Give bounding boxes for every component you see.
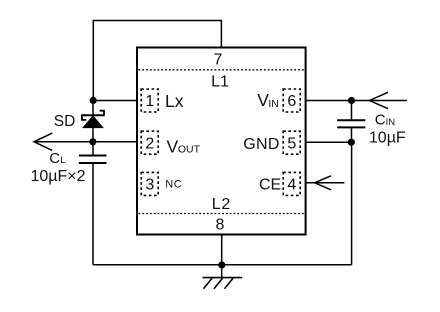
label SD bbox=[54, 113, 76, 130]
svg-text:L2: L2 bbox=[212, 196, 231, 213]
svg-text:NC: NC bbox=[165, 179, 182, 191]
capacitor CL bbox=[79, 156, 107, 164]
junction node VIN/CIN bbox=[348, 97, 355, 104]
junction node ground rail bbox=[218, 261, 225, 268]
label L1 bbox=[211, 74, 229, 91]
wire Lx node to pin 1 bbox=[93, 100, 141, 102]
svg-text:GND: GND bbox=[243, 136, 279, 153]
svg-text:6: 6 bbox=[287, 93, 296, 110]
svg-text:10µF: 10µF bbox=[369, 130, 406, 147]
svg-text:10µF×2: 10µF×2 bbox=[31, 168, 86, 185]
diode SD (Schottky) bbox=[81, 111, 105, 128]
pin 7 label bbox=[214, 52, 223, 69]
wire bottom ground rail bbox=[93, 264, 352, 266]
pin 6 box bbox=[283, 89, 300, 112]
svg-text:V: V bbox=[257, 90, 269, 110]
wire CIN bottom to GND node bbox=[351, 127, 353, 142]
pin 5 number bbox=[287, 135, 296, 152]
wire CE input line from pin 4 bbox=[300, 182, 344, 184]
svg-text:L: L bbox=[60, 155, 65, 166]
wire VIN input line from pin 6 bbox=[300, 100, 407, 102]
pin 2 name VOUT bbox=[167, 136, 201, 156]
pin 2 box bbox=[141, 131, 158, 154]
svg-text:5: 5 bbox=[287, 135, 296, 152]
svg-text:3: 3 bbox=[145, 177, 154, 194]
pin 6 number bbox=[287, 93, 296, 110]
label L2 bbox=[212, 196, 231, 213]
svg-text:C: C bbox=[49, 150, 60, 167]
wire VOUT output line to pin 2 bbox=[34, 141, 141, 143]
svg-text:SD: SD bbox=[54, 113, 76, 130]
svg-text:IN: IN bbox=[386, 117, 396, 128]
wire CIN node down right side to ground rail bbox=[351, 142, 353, 265]
junction node GND/CIN bbox=[348, 139, 355, 146]
pin 2 number bbox=[145, 135, 154, 152]
pin 6 name VIN bbox=[257, 90, 279, 110]
svg-text:4: 4 bbox=[287, 177, 296, 194]
wire VIN node to CIN top bbox=[351, 101, 353, 121]
label CL bbox=[49, 150, 65, 167]
wire diode cathode to Lx node bbox=[92, 101, 94, 116]
arrow CE input (pointing left) bbox=[315, 176, 331, 190]
svg-text:CE: CE bbox=[259, 177, 281, 194]
IC U1 body bbox=[137, 48, 306, 235]
label 10uFx2 bbox=[31, 168, 86, 185]
arrow VIN input (pointing left) bbox=[370, 92, 389, 108]
inductor L1 dotted line bbox=[139, 69, 305, 71]
pin 1 number bbox=[145, 93, 154, 110]
ground symbol bbox=[203, 278, 243, 289]
svg-text:IN: IN bbox=[268, 98, 279, 110]
pin 3 name NC bbox=[165, 179, 182, 191]
pin 5 box bbox=[283, 131, 300, 154]
pin 3 number bbox=[145, 177, 154, 194]
svg-text:2: 2 bbox=[145, 135, 154, 152]
svg-text:V: V bbox=[167, 136, 179, 156]
inductor L2 dotted line bbox=[139, 213, 305, 215]
pin 4 box bbox=[283, 172, 300, 195]
pin 1 box bbox=[141, 89, 158, 112]
label 10uF bbox=[369, 130, 406, 147]
wire CL to ground rail bbox=[92, 163, 94, 265]
svg-text:OUT: OUT bbox=[178, 144, 201, 156]
svg-text:7: 7 bbox=[214, 52, 223, 69]
arrow VOUT output (pointing left) bbox=[34, 133, 52, 150]
pin 1 name Lx bbox=[165, 91, 184, 111]
wire diode anode to VOUT node bbox=[92, 128, 94, 156]
junction node Lx/diode bbox=[90, 97, 97, 104]
svg-text:1: 1 bbox=[145, 93, 154, 110]
wire pin 8 to ground rail bbox=[221, 235, 223, 265]
svg-text:L1: L1 bbox=[211, 74, 229, 91]
junction node VOUT/CL bbox=[89, 138, 96, 145]
pin 4 number bbox=[287, 177, 296, 194]
pin 3 box bbox=[141, 172, 158, 195]
wire top loop from Lx node to pin 7 bbox=[93, 21, 221, 101]
pin 8 label bbox=[216, 217, 225, 234]
svg-text:8: 8 bbox=[216, 217, 225, 234]
svg-text:C: C bbox=[375, 112, 386, 129]
wire ground stub bbox=[221, 265, 223, 278]
wire GND pin 5 to CIN node bbox=[300, 141, 351, 143]
pin 5 name GND bbox=[243, 136, 279, 153]
label CIN bbox=[375, 112, 395, 129]
pin 4 name CE bbox=[259, 177, 281, 194]
capacitor CIN bbox=[337, 120, 365, 127]
svg-text:Lx: Lx bbox=[165, 91, 184, 111]
